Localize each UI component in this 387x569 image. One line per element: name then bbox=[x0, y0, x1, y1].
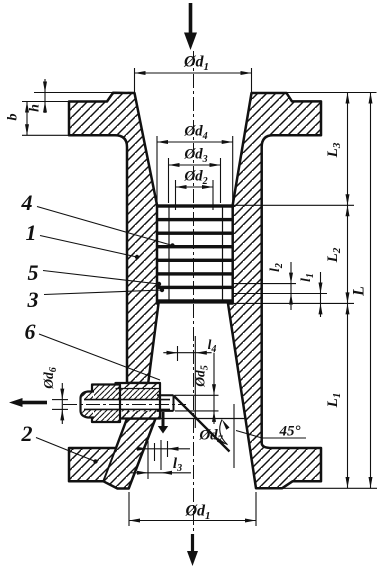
ring stack plates, parts 3,4,5 bbox=[157, 204, 233, 303]
svg-text:L: L bbox=[351, 286, 368, 297]
nozzle outlet flow arrow (left) bbox=[9, 398, 47, 407]
dimension L3: line, arrows, label bbox=[347, 93, 349, 206]
svg-text:1: 1 bbox=[26, 220, 37, 245]
dimension h: extension and arrows bbox=[34, 79, 113, 113]
dimension L: line, arrows, label bbox=[370, 93, 372, 489]
dimension Od6: ext ticks, dim line, arrows bbox=[52, 383, 68, 424]
chamber chord line at boss bottom bbox=[160, 418, 246, 420]
svg-text:h: h bbox=[28, 104, 43, 112]
spray cone 45 deg line bbox=[174, 396, 230, 452]
body left upper section (flange + converging wall), part 1 bbox=[69, 93, 159, 383]
dimension Od7: ext ticks bbox=[136, 440, 190, 479]
dimension b: extension and arrows bbox=[22, 102, 69, 136]
nozzle boss on body bbox=[116, 383, 161, 419]
nozzle nose cap bbox=[81, 392, 95, 418]
dimension Od2: lines and arrows bbox=[176, 180, 214, 210]
dimension Od3: lines and arrows bbox=[169, 158, 221, 203]
right side extension lines bbox=[233, 93, 377, 489]
svg-text:5: 5 bbox=[28, 260, 39, 285]
bottom flow arrow bbox=[187, 534, 198, 566]
dimension 45deg: vertical ext line bbox=[233, 404, 235, 468]
svg-text:2: 2 bbox=[21, 421, 33, 446]
nozzle bore lines bbox=[84, 400, 170, 410]
dimension 45deg: arc with arrows bbox=[220, 420, 228, 445]
svg-text:4: 4 bbox=[21, 190, 33, 215]
dimension Od7: arrows bbox=[137, 447, 179, 451]
svg-text:6: 6 bbox=[25, 319, 36, 344]
dimension L1: line, arrows, label bbox=[347, 303, 349, 488]
dimension l3: line and arrows bbox=[130, 472, 191, 474]
body left bottom flange section, part 2 region bbox=[69, 419, 156, 489]
dimension l4: line, ext, arrows bbox=[163, 336, 211, 428]
nozzle thread crest line bbox=[116, 388, 161, 390]
dimension Od4: lines and arrows bbox=[157, 136, 233, 203]
dimension l2: line and arrows bbox=[290, 262, 292, 310]
dimension Od1 top: extension lines bbox=[135, 68, 252, 92]
dimension Od5: ext lines, dim line, arrows bbox=[175, 353, 219, 424]
nozzle horizontal centerline bbox=[63, 404, 186, 406]
svg-text:3: 3 bbox=[27, 287, 39, 312]
svg-text:b: b bbox=[6, 114, 21, 121]
cone outer surface line through flange bbox=[103, 448, 116, 481]
top flow arrow bbox=[184, 3, 197, 50]
nozzle tube outer lines bbox=[157, 395, 174, 411]
ring stack spacer edges bbox=[169, 205, 223, 303]
body right section (top flange + wall + bottom flange), part 1 bbox=[228, 93, 321, 488]
svg-text:45°: 45° bbox=[279, 424, 301, 440]
main vertical centerline bbox=[193, 51, 195, 552]
dimension 45deg: leader and label bbox=[236, 431, 306, 439]
dimension l1: line and arrows bbox=[320, 272, 322, 317]
dimension Od1 bottom: ext lines, dim line, arrows bbox=[129, 492, 256, 526]
injected flow arrow (down, below nozzle) bbox=[158, 412, 168, 434]
dimension L2: line, arrows, label bbox=[347, 205, 349, 303]
nozzle union body, part 6 bbox=[92, 385, 160, 423]
dimension Od1 top: arrows bbox=[135, 71, 252, 75]
